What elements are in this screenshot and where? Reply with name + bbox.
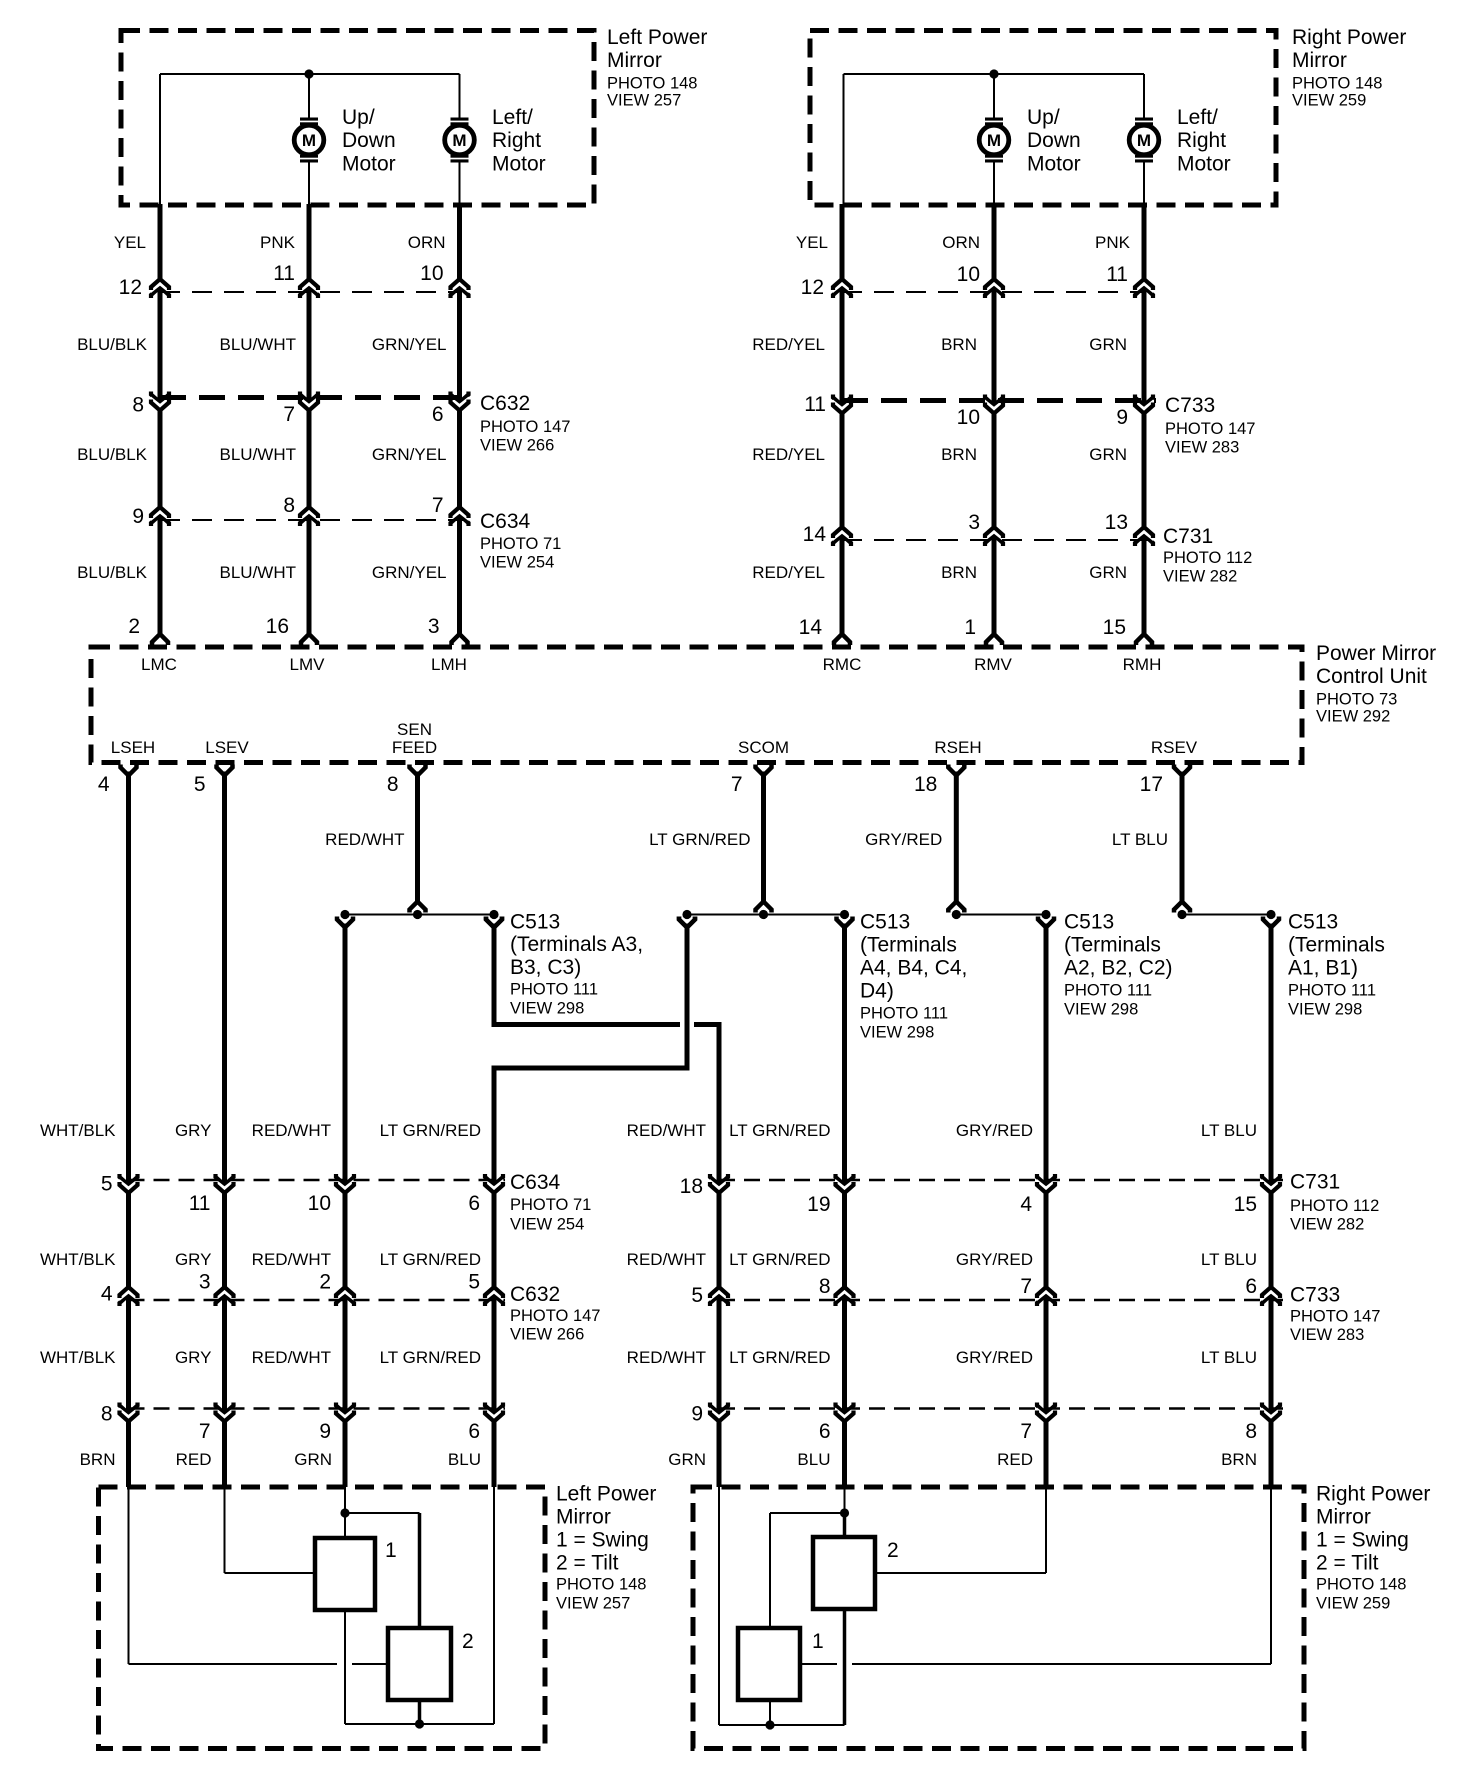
svg-text:(Terminals: (Terminals — [1064, 934, 1161, 957]
wire switch1 bottom to common (left) — [344, 1610, 346, 1724]
svg-text:GRN/YEL: GRN/YEL — [372, 563, 447, 582]
svg-text:A4, B4, C4,: A4, B4, C4, — [860, 957, 967, 980]
svg-text:VIEW 283: VIEW 283 — [1165, 439, 1239, 457]
junction dot BLU right mirror — [840, 1508, 849, 1517]
wire LT GRN/RED lower left (BLU to mirror) — [484, 1068, 504, 1487]
svg-text:RED/WHT: RED/WHT — [627, 1348, 706, 1367]
label connector C731 lower — [1290, 1171, 1379, 1234]
svg-text:BRN: BRN — [80, 1450, 116, 1469]
svg-text:19: 19 — [807, 1193, 830, 1216]
svg-text:RED: RED — [176, 1450, 212, 1469]
junction dot common left mirror — [415, 1719, 424, 1728]
svg-text:YEL: YEL — [796, 233, 828, 252]
svg-text:Right: Right — [1177, 129, 1226, 152]
svg-text:10: 10 — [308, 1192, 331, 1215]
tilt switch 2 (left mirror) — [388, 1628, 451, 1700]
svg-text:C513: C513 — [860, 911, 910, 934]
svg-text:SEN: SEN — [397, 720, 432, 739]
wire RED inside right mirror — [875, 1487, 1046, 1573]
swing switch 1 (left mirror) — [315, 1538, 375, 1610]
svg-text:LMC: LMC — [141, 655, 177, 674]
wire ORN/GRN-YEL left (LMH) — [457, 204, 462, 635]
svg-text:5: 5 — [468, 1270, 480, 1293]
wire LT BLU lower (BRN to right mirror) — [1269, 924, 1274, 1488]
svg-text:VIEW 292: VIEW 292 — [1316, 708, 1390, 726]
wire YEL/RED-YEL right (RMC) — [840, 204, 845, 635]
svg-text:5: 5 — [101, 1173, 113, 1196]
svg-text:7: 7 — [432, 494, 444, 517]
svg-text:10: 10 — [420, 262, 443, 285]
svg-text:BLU: BLU — [797, 1450, 830, 1469]
svg-text:GRN: GRN — [294, 1450, 332, 1469]
svg-text:RED/WHT: RED/WHT — [627, 1250, 706, 1269]
connector C513 terminals A2 B2 C2 junction — [952, 910, 1054, 928]
label connector C731 — [1163, 525, 1252, 586]
svg-text:11: 11 — [189, 1192, 211, 1215]
svg-text:RSEH: RSEH — [934, 738, 981, 757]
svg-text:Down: Down — [342, 129, 396, 152]
wire LT GRN/RED crossover (C513 A4 to left half) — [492, 917, 696, 1069]
Right Power Mirror (switch) enclosure — [693, 1487, 1304, 1749]
wire colour labels, top left — [77, 233, 446, 582]
svg-text:VIEW 266: VIEW 266 — [510, 1326, 584, 1344]
svg-text:WHT/BLK: WHT/BLK — [40, 1348, 116, 1367]
pin numbers below control unit — [98, 773, 1163, 796]
svg-text:PHOTO 147: PHOTO 147 — [480, 418, 570, 436]
svg-text:GRN/YEL: GRN/YEL — [372, 445, 447, 464]
label connector C632 — [480, 392, 570, 455]
svg-text:Power Mirror: Power Mirror — [1316, 642, 1436, 665]
svg-text:18: 18 — [680, 1175, 703, 1198]
svg-text:(Terminals: (Terminals — [860, 934, 957, 957]
wire LT GRN/RED (SCOM, pin 7) — [756, 765, 772, 776]
svg-text:RED/YEL: RED/YEL — [752, 563, 825, 582]
svg-text:VIEW 283: VIEW 283 — [1290, 1326, 1364, 1344]
wire PNK/GRN right (RMH) — [1142, 204, 1147, 635]
connector C634 row line — [160, 519, 465, 521]
pin numbers, right mirror rows — [799, 263, 1128, 639]
connector C513 terminals A1 B1 junction — [1177, 910, 1279, 928]
svg-text:BLU/WHT: BLU/WHT — [220, 563, 297, 582]
wire switch2 bottom (right) — [843, 1609, 847, 1725]
svg-text:Mirror: Mirror — [1292, 49, 1347, 72]
connector C634 lower row line — [129, 1179, 506, 1182]
svg-text:GRN: GRN — [1089, 335, 1127, 354]
svg-text:8: 8 — [132, 393, 144, 416]
wire BRN inside right mirror — [800, 1487, 1271, 1664]
svg-text:Mirror: Mirror — [1316, 1506, 1371, 1529]
svg-text:RED/WHT: RED/WHT — [252, 1348, 331, 1367]
svg-text:D4): D4) — [860, 980, 894, 1003]
svg-text:YEL: YEL — [114, 233, 146, 252]
wire colour labels, top right — [752, 233, 1130, 582]
svg-text:GRY/RED: GRY/RED — [956, 1121, 1033, 1140]
svg-text:C513: C513 — [1288, 911, 1338, 934]
wire BRN inside left mirror — [129, 1487, 389, 1664]
label Left Power Mirror switch title — [556, 1483, 656, 1613]
svg-text:RED: RED — [997, 1450, 1033, 1469]
svg-text:Up/: Up/ — [342, 106, 375, 129]
svg-text:GRY: GRY — [175, 1348, 212, 1367]
svg-text:Right: Right — [492, 129, 541, 152]
svg-text:PHOTO 111: PHOTO 111 — [1064, 982, 1152, 1000]
svg-text:PHOTO 112: PHOTO 112 — [1290, 1197, 1379, 1215]
wire BLU inside right mirror — [770, 1487, 845, 1628]
svg-text:2: 2 — [128, 615, 140, 638]
wire switch1 bottom (right) — [769, 1700, 771, 1725]
svg-text:1 = Swing: 1 = Swing — [556, 1529, 649, 1552]
svg-text:BRN: BRN — [1221, 1450, 1257, 1469]
svg-text:LT GRN/RED: LT GRN/RED — [729, 1250, 830, 1269]
motor left up/down — [294, 118, 324, 163]
swing switch 1 (right mirror) — [738, 1628, 800, 1700]
svg-text:BLU/BLK: BLU/BLK — [77, 563, 148, 582]
svg-text:GRY/RED: GRY/RED — [956, 1250, 1033, 1269]
svg-text:BLU/BLK: BLU/BLK — [77, 445, 148, 464]
label left/right motor left — [492, 106, 546, 176]
svg-text:A1, B1): A1, B1) — [1288, 957, 1358, 980]
svg-text:ORN: ORN — [408, 233, 446, 252]
wire: left mirror internal bus — [160, 74, 460, 206]
svg-text:WHT/BLK: WHT/BLK — [40, 1121, 116, 1140]
junction dot left mirror bus — [304, 69, 313, 78]
svg-text:M: M — [987, 131, 1001, 150]
pin numbers, left mirror rows — [119, 262, 444, 638]
svg-text:6: 6 — [468, 1420, 480, 1443]
svg-text:VIEW 298: VIEW 298 — [510, 1000, 584, 1018]
svg-text:15: 15 — [1234, 1193, 1257, 1216]
svg-text:LT GRN/RED: LT GRN/RED — [380, 1121, 481, 1140]
svg-text:2 = Tilt: 2 = Tilt — [556, 1552, 619, 1575]
svg-text:C634: C634 — [510, 1171, 561, 1194]
svg-text:LT GRN/RED: LT GRN/RED — [729, 1121, 830, 1140]
svg-text:LT BLU: LT BLU — [1201, 1250, 1257, 1269]
wire LT GRN/RED lower right (BLU to mirror) — [842, 924, 847, 1488]
svg-text:PHOTO 73: PHOTO 73 — [1316, 691, 1397, 709]
svg-text:9: 9 — [319, 1420, 331, 1443]
svg-text:GRY/RED: GRY/RED — [865, 830, 942, 849]
svg-text:RED/YEL: RED/YEL — [752, 445, 825, 464]
svg-text:C731: C731 — [1163, 525, 1213, 548]
svg-text:PHOTO 71: PHOTO 71 — [480, 535, 561, 553]
svg-text:PNK: PNK — [1095, 233, 1131, 252]
label left/right motor right — [1177, 106, 1231, 176]
svg-text:6: 6 — [1245, 1275, 1257, 1298]
svg-text:VIEW 259: VIEW 259 — [1292, 92, 1366, 110]
wire GRN inside left mirror — [345, 1487, 420, 1538]
svg-text:Left/: Left/ — [1177, 106, 1218, 129]
svg-text:LT BLU: LT BLU — [1201, 1121, 1257, 1140]
svg-text:LT BLU: LT BLU — [1112, 830, 1168, 849]
wire colour labels below control unit — [325, 830, 1168, 849]
svg-text:FEED: FEED — [392, 738, 437, 757]
svg-text:12: 12 — [119, 276, 142, 299]
wire RED/WHT (SEN FEED, pin 8) — [410, 765, 426, 776]
svg-text:RED/WHT: RED/WHT — [252, 1250, 331, 1269]
control unit net names top row — [141, 655, 1161, 674]
svg-text:PNK: PNK — [260, 233, 296, 252]
svg-text:PHOTO 148: PHOTO 148 — [556, 1576, 646, 1594]
svg-text:BLU/WHT: BLU/WHT — [220, 335, 297, 354]
wire RED inside left mirror — [225, 1487, 316, 1573]
wire to tilt switch top (right) — [843, 1513, 847, 1537]
svg-text:RMV: RMV — [974, 655, 1012, 674]
svg-text:GRY: GRY — [175, 1121, 212, 1140]
label up/down motor left — [342, 106, 396, 176]
svg-text:M: M — [452, 131, 466, 150]
svg-text:6: 6 — [432, 403, 444, 426]
svg-text:10: 10 — [957, 406, 980, 429]
svg-text:C733: C733 — [1165, 394, 1215, 417]
svg-text:GRN: GRN — [1089, 563, 1127, 582]
svg-text:Right Power: Right Power — [1292, 26, 1406, 49]
label connector C733 — [1165, 394, 1255, 457]
svg-text:VIEW 298: VIEW 298 — [1064, 1001, 1138, 1019]
svg-text:RED/YEL: RED/YEL — [752, 335, 825, 354]
label C513 A3 B3 C3 — [510, 911, 643, 1018]
svg-text:LMH: LMH — [431, 655, 467, 674]
connector C632 lower row line — [129, 1299, 506, 1302]
wire ORN/BRN right (RMV) — [992, 204, 997, 635]
svg-text:5: 5 — [194, 773, 206, 796]
svg-text:10: 10 — [957, 263, 980, 286]
svg-text:PHOTO 147: PHOTO 147 — [1165, 420, 1255, 438]
svg-text:PHOTO 111: PHOTO 111 — [1288, 982, 1376, 1000]
connector row line (in-mirror, right) — [842, 291, 1144, 293]
svg-text:2: 2 — [462, 1630, 474, 1653]
svg-text:Mirror: Mirror — [607, 49, 662, 72]
svg-text:C513: C513 — [510, 911, 560, 934]
connector C632 row line — [160, 395, 472, 400]
in-mirror connector row line lower right — [719, 1407, 1283, 1410]
svg-text:1: 1 — [812, 1630, 824, 1653]
label connector C634 lower — [510, 1171, 591, 1234]
connector C731 row line — [842, 539, 1152, 541]
control unit net names bottom row — [111, 720, 1198, 757]
svg-text:11: 11 — [1106, 263, 1128, 286]
wire LT BLU (RSEV, pin 17) — [1174, 765, 1190, 776]
Power Mirror Control Unit enclosure — [91, 647, 1302, 763]
label connector C634 — [480, 510, 561, 572]
svg-text:VIEW 266: VIEW 266 — [480, 437, 554, 455]
wire PNK/BLU-WHT left (LMV) — [307, 204, 312, 635]
label connector C632 lower — [510, 1283, 600, 1344]
svg-text:BRN: BRN — [941, 563, 977, 582]
svg-text:1: 1 — [964, 616, 976, 639]
svg-text:RED/WHT: RED/WHT — [325, 830, 404, 849]
svg-text:M: M — [302, 131, 316, 150]
motor right up/down — [979, 118, 1009, 163]
label C513 A4 B4 C4 D4 — [860, 911, 967, 1042]
wire common bus left mirror — [345, 1723, 494, 1725]
svg-text:PHOTO 71: PHOTO 71 — [510, 1196, 591, 1214]
svg-text:C632: C632 — [510, 1283, 560, 1306]
svg-text:8: 8 — [101, 1402, 113, 1425]
svg-text:BLU: BLU — [448, 1450, 481, 1469]
svg-text:VIEW 257: VIEW 257 — [556, 1595, 630, 1613]
svg-text:2 = Tilt: 2 = Tilt — [1316, 1552, 1379, 1575]
svg-text:ORN: ORN — [942, 233, 980, 252]
svg-text:3: 3 — [428, 615, 440, 638]
svg-text:14: 14 — [803, 523, 827, 546]
wire BLU inside left mirror — [493, 1487, 495, 1724]
svg-text:GRN/YEL: GRN/YEL — [372, 335, 447, 354]
svg-text:Up/: Up/ — [1027, 106, 1060, 129]
label up/down motor right — [1027, 106, 1081, 176]
svg-text:1: 1 — [385, 1539, 397, 1562]
wire RED/WHT lower right (GRN to mirror) — [709, 1025, 729, 1488]
svg-text:3: 3 — [199, 1270, 211, 1293]
svg-text:17: 17 — [1140, 773, 1163, 796]
svg-text:Down: Down — [1027, 129, 1081, 152]
svg-text:LMV: LMV — [290, 655, 326, 674]
connector row line (in-mirror, left) — [160, 291, 460, 293]
svg-text:7: 7 — [731, 773, 743, 796]
svg-text:WHT/BLK: WHT/BLK — [40, 1250, 116, 1269]
svg-text:B3, C3): B3, C3) — [510, 956, 581, 979]
label C513 A1 B1 — [1288, 911, 1385, 1019]
svg-text:VIEW 254: VIEW 254 — [510, 1216, 584, 1234]
svg-text:PHOTO 147: PHOTO 147 — [510, 1307, 600, 1325]
wire switch2 bottom (left) — [418, 1700, 422, 1724]
wire YEL/BLU-BLK left (LMC) — [158, 204, 163, 635]
svg-text:VIEW 282: VIEW 282 — [1163, 568, 1237, 586]
pin numbers lower rows left — [101, 1173, 480, 1444]
svg-text:4: 4 — [1020, 1193, 1032, 1216]
wire GRN inside right mirror — [719, 1487, 845, 1725]
tilt switch 2 (right mirror) — [813, 1537, 875, 1609]
svg-text:(Terminals: (Terminals — [1288, 934, 1385, 957]
svg-text:8: 8 — [819, 1275, 831, 1298]
svg-text:Motor: Motor — [492, 153, 546, 176]
svg-text:BRN: BRN — [941, 335, 977, 354]
connector C733 lower row line — [719, 1299, 1283, 1302]
svg-text:BLU/BLK: BLU/BLK — [77, 335, 148, 354]
svg-text:GRY: GRY — [175, 1250, 212, 1269]
svg-text:2: 2 — [319, 1270, 331, 1293]
motor left left/right — [445, 118, 475, 163]
svg-text:3: 3 — [968, 511, 980, 534]
svg-text:C513: C513 — [1064, 911, 1114, 934]
wire colour labels lower half — [40, 1121, 1257, 1469]
svg-text:GRN: GRN — [1089, 445, 1127, 464]
svg-text:7: 7 — [1020, 1275, 1032, 1298]
svg-text:2: 2 — [887, 1539, 899, 1562]
svg-text:16: 16 — [266, 615, 289, 638]
svg-text:PHOTO 111: PHOTO 111 — [510, 981, 598, 999]
svg-text:Motor: Motor — [1027, 153, 1081, 176]
label C513 A2 B2 C2 — [1064, 911, 1173, 1019]
svg-text:8: 8 — [1245, 1420, 1257, 1443]
motor right left/right — [1129, 118, 1159, 163]
svg-text:6: 6 — [468, 1192, 480, 1215]
svg-text:VIEW 254: VIEW 254 — [480, 554, 554, 572]
label Power Mirror Control Unit title — [1316, 642, 1436, 726]
wire to swing switch top (left) — [418, 1513, 422, 1628]
svg-text:LT GRN/RED: LT GRN/RED — [729, 1348, 830, 1367]
svg-text:VIEW 298: VIEW 298 — [1288, 1001, 1362, 1019]
Left Power Mirror enclosure — [121, 31, 594, 206]
Left Power Mirror (switch) enclosure — [99, 1487, 546, 1749]
svg-text:(Terminals A3,: (Terminals A3, — [510, 933, 643, 956]
junction dot common right mirror — [765, 1720, 774, 1729]
svg-text:RMH: RMH — [1123, 655, 1162, 674]
svg-text:13: 13 — [1105, 511, 1128, 534]
svg-text:7: 7 — [1020, 1420, 1032, 1443]
svg-text:4: 4 — [98, 773, 110, 796]
svg-text:LT GRN/RED: LT GRN/RED — [380, 1348, 481, 1367]
in-mirror connector row line lower left — [129, 1407, 506, 1410]
svg-text:18: 18 — [914, 773, 937, 796]
wire WHT/BLK (LSEH, pin 4) — [121, 765, 137, 776]
label Left Power Mirror title — [607, 26, 707, 110]
svg-text:C632: C632 — [480, 392, 530, 415]
svg-text:11: 11 — [273, 262, 295, 285]
svg-text:LT GRN/RED: LT GRN/RED — [649, 830, 750, 849]
svg-text:9: 9 — [1116, 406, 1128, 429]
svg-text:15: 15 — [1103, 616, 1126, 639]
wire RED/WHT lower left (GRN to mirror) — [343, 924, 348, 1488]
svg-text:14: 14 — [799, 616, 823, 639]
wire: right mirror internal bus — [844, 74, 1145, 206]
svg-text:RSEV: RSEV — [1151, 738, 1198, 757]
label connector C733 lower — [1290, 1284, 1380, 1344]
svg-text:8: 8 — [283, 494, 295, 517]
pin numbers lower rows right — [680, 1175, 1257, 1443]
svg-text:PHOTO 148: PHOTO 148 — [1292, 75, 1382, 93]
svg-text:LT BLU: LT BLU — [1201, 1348, 1257, 1367]
svg-text:VIEW 257: VIEW 257 — [607, 92, 681, 110]
svg-text:Right Power: Right Power — [1316, 1483, 1430, 1506]
svg-text:M: M — [1137, 131, 1151, 150]
svg-text:Left Power: Left Power — [556, 1483, 656, 1506]
junction dot GRN left mirror — [340, 1508, 349, 1517]
svg-text:C634: C634 — [480, 510, 531, 533]
connector C513 terminals A3 B3 C3 junction — [337, 910, 502, 928]
wire GRY/RED lower (RED to right mirror) — [1044, 924, 1049, 1488]
svg-text:BRN: BRN — [941, 445, 977, 464]
svg-text:1 = Swing: 1 = Swing — [1316, 1529, 1409, 1552]
label Right Power Mirror title — [1292, 26, 1406, 110]
svg-text:PHOTO 111: PHOTO 111 — [860, 1005, 948, 1023]
svg-text:7: 7 — [199, 1420, 211, 1443]
svg-text:PHOTO 148: PHOTO 148 — [607, 75, 697, 93]
svg-text:PHOTO 112: PHOTO 112 — [1163, 549, 1252, 567]
svg-text:VIEW 259: VIEW 259 — [1316, 1595, 1390, 1613]
svg-text:9: 9 — [132, 505, 144, 528]
svg-text:4: 4 — [101, 1283, 113, 1306]
connector C513 terminals A4 B4 C4 D4 junction — [679, 910, 853, 928]
svg-text:5: 5 — [691, 1284, 703, 1307]
svg-text:BLU/WHT: BLU/WHT — [220, 445, 297, 464]
svg-text:LSEH: LSEH — [111, 738, 155, 757]
svg-text:Motor: Motor — [342, 153, 396, 176]
connector C731 lower row line — [719, 1179, 1283, 1182]
svg-text:Mirror: Mirror — [556, 1506, 611, 1529]
svg-text:C733: C733 — [1290, 1284, 1340, 1307]
wire GRY/RED (RSEH, pin 18) — [948, 765, 964, 776]
svg-text:LSEV: LSEV — [205, 738, 249, 757]
svg-text:SCOM: SCOM — [738, 738, 789, 757]
svg-text:RMC: RMC — [823, 655, 862, 674]
svg-text:12: 12 — [801, 276, 824, 299]
svg-text:GRN: GRN — [668, 1450, 706, 1469]
svg-text:VIEW 282: VIEW 282 — [1290, 1216, 1364, 1234]
svg-text:RED/WHT: RED/WHT — [252, 1121, 331, 1140]
svg-text:PHOTO 148: PHOTO 148 — [1316, 1576, 1406, 1594]
wire GRY (LSEV, pin 5) — [217, 765, 233, 776]
svg-text:LT GRN/RED: LT GRN/RED — [380, 1250, 481, 1269]
